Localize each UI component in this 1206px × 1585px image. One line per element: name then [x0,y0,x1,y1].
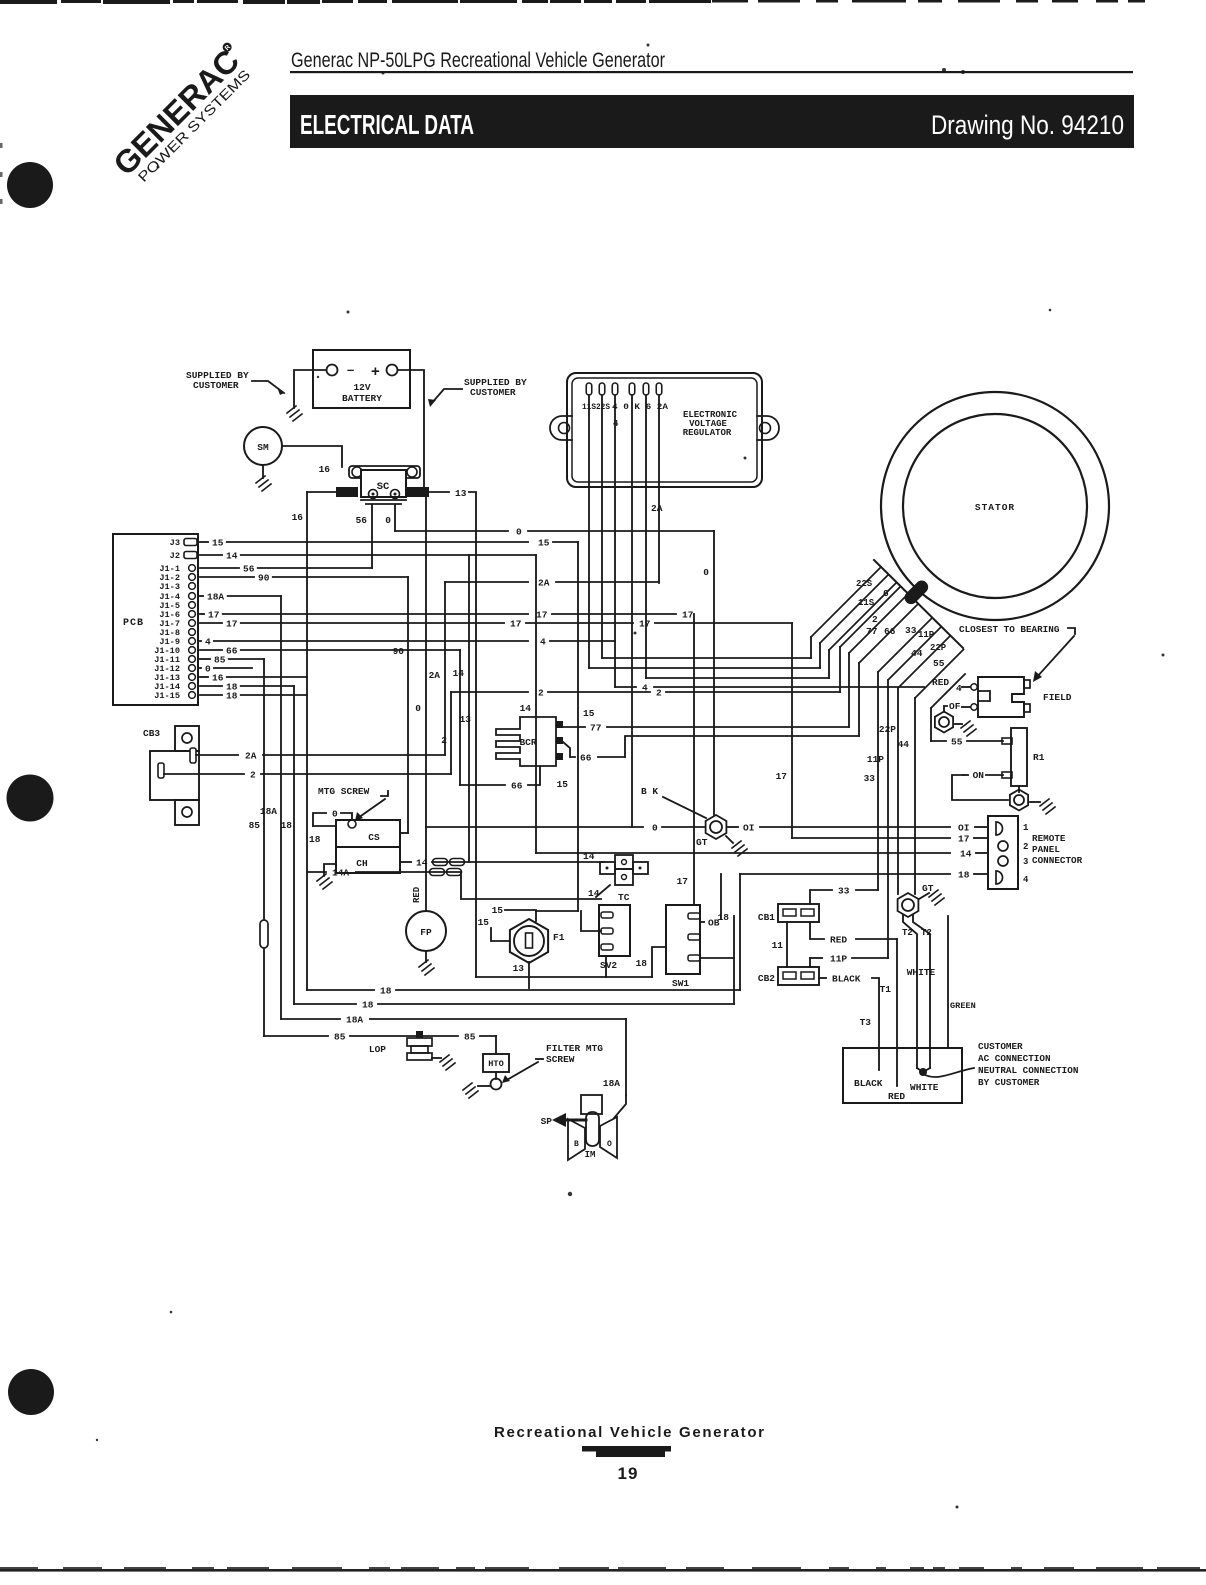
svg-text:FIELD: FIELD [1043,692,1072,703]
svg-text:SV2: SV2 [600,960,617,971]
svg-text:SC: SC [377,481,390,493]
svg-text:15: 15 [212,538,224,549]
svg-text:GT: GT [696,837,708,848]
svg-text:14: 14 [226,551,238,562]
svg-text:85: 85 [214,655,226,666]
svg-text:–: – [347,362,354,377]
svg-text:BLACK: BLACK [832,974,861,985]
svg-text:0: 0 [516,527,522,538]
svg-text:4: 4 [642,683,648,694]
svg-text:15: 15 [557,779,569,790]
svg-text:REMOTE: REMOTE [1032,833,1066,844]
svg-text:18: 18 [380,986,392,997]
svg-text:85: 85 [334,1032,346,1043]
svg-text:+: + [371,363,380,380]
svg-text:17: 17 [510,619,522,630]
svg-text:17: 17 [536,610,548,621]
svg-text:17: 17 [682,610,694,621]
svg-text:2: 2 [872,614,878,625]
svg-text:0: 0 [385,515,391,526]
svg-text:4: 4 [613,419,619,429]
svg-text:56: 56 [243,564,255,575]
svg-text:ELECTRICAL DATA: ELECTRICAL DATA [300,109,474,140]
svg-text:F1: F1 [553,932,565,943]
svg-text:77: 77 [590,723,602,734]
svg-text:18A: 18A [260,806,277,817]
svg-text:14: 14 [520,703,532,714]
svg-text:J1-3: J1-3 [159,582,180,592]
svg-text:33: 33 [864,773,876,784]
svg-text:12V: 12V [353,382,370,393]
svg-text:SP: SP [541,1116,553,1127]
svg-text:0: 0 [415,703,421,714]
svg-text:4: 4 [956,683,962,694]
svg-text:BCR: BCR [519,737,536,748]
svg-text:FILTER MTG: FILTER MTG [546,1043,603,1054]
svg-text:OI: OI [743,823,754,834]
svg-text:66: 66 [226,646,238,657]
svg-text:22P: 22P [930,643,947,653]
svg-text:TC: TC [618,892,630,903]
svg-text:CB2: CB2 [758,973,775,984]
svg-text:11P: 11P [918,630,935,640]
svg-text:B: B [574,1140,579,1149]
svg-text:O: O [607,1140,612,1149]
svg-text:2: 2 [250,770,256,781]
svg-text:18: 18 [281,820,293,831]
svg-text:13: 13 [455,488,467,499]
svg-text:2: 2 [441,735,447,746]
svg-text:56: 56 [356,515,368,526]
svg-text:11P: 11P [830,954,847,965]
svg-text:0: 0 [703,567,709,578]
svg-text:16: 16 [212,673,224,684]
svg-text:AC CONNECTION: AC CONNECTION [978,1053,1051,1064]
svg-text:17: 17 [208,610,220,621]
svg-text:18: 18 [309,834,321,845]
svg-text:33: 33 [905,625,917,636]
svg-text:3: 3 [1023,857,1028,867]
svg-text:18: 18 [636,958,648,969]
svg-text:CUSTOMER: CUSTOMER [978,1041,1023,1052]
svg-text:44: 44 [898,739,910,750]
svg-text:T3: T3 [860,1017,872,1028]
svg-text:CUSTOMER: CUSTOMER [470,387,516,398]
svg-text:14: 14 [453,668,465,679]
svg-text:18: 18 [362,1000,374,1011]
svg-text:66: 66 [580,753,592,764]
svg-text:15: 15 [538,538,550,549]
svg-text:CB3: CB3 [143,728,160,739]
svg-text:4: 4 [205,637,211,648]
svg-text:44: 44 [911,648,923,659]
svg-text:LOP: LOP [369,1044,386,1055]
svg-text:MTG SCREW: MTG SCREW [318,786,370,797]
svg-text:0: 0 [332,809,338,820]
svg-text:18: 18 [958,870,970,881]
svg-text:OF: OF [949,701,961,712]
svg-text:2A: 2A [538,578,550,589]
svg-text:17: 17 [639,619,651,630]
svg-text:REGULATOR: REGULATOR [683,428,732,438]
svg-text:2: 2 [656,688,662,699]
svg-text:PCB: PCB [123,618,144,629]
svg-text:HTO: HTO [488,1059,503,1069]
svg-text:66: 66 [511,781,523,792]
svg-text:RED: RED [932,677,949,688]
svg-text:1: 1 [1023,823,1029,833]
svg-text:0: 0 [205,664,211,675]
svg-text:15: 15 [478,917,490,928]
svg-text:18A: 18A [346,1015,363,1026]
svg-text:NEUTRAL CONNECTION: NEUTRAL CONNECTION [978,1065,1078,1076]
svg-text:4: 4 [1023,875,1029,885]
svg-text:GREEN: GREEN [950,1001,976,1011]
svg-text:55: 55 [951,737,963,748]
svg-text:14: 14 [416,858,428,869]
svg-text:11S: 11S [858,598,875,608]
svg-text:33: 33 [838,886,850,897]
svg-text:J2: J2 [170,551,180,561]
svg-text:14A: 14A [332,868,349,879]
svg-text:2: 2 [538,688,544,699]
svg-text:STATOR: STATOR [975,502,1015,513]
svg-text:T1: T1 [880,984,892,995]
svg-text:19: 19 [618,1464,639,1483]
svg-text:16: 16 [292,512,304,523]
svg-text:2A: 2A [651,503,663,514]
svg-text:PANEL: PANEL [1032,844,1060,855]
svg-text:GT: GT [922,883,934,894]
svg-text:SW1: SW1 [672,978,689,989]
svg-text:J3: J3 [170,538,180,548]
svg-text:SM: SM [257,442,269,453]
svg-text:90: 90 [393,646,405,657]
svg-text:85: 85 [464,1032,476,1043]
svg-text:IM: IM [585,1150,596,1160]
svg-text:13: 13 [513,963,525,974]
svg-text:R1: R1 [1033,752,1045,763]
svg-text:17: 17 [226,619,238,630]
svg-text:B K: B K [641,786,658,797]
svg-text:18: 18 [718,912,730,923]
svg-text:85: 85 [249,820,261,831]
svg-text:77: 77 [866,626,878,637]
svg-text:BY CUSTOMER: BY CUSTOMER [978,1077,1040,1088]
svg-text:66: 66 [884,626,896,637]
svg-text:WHITE: WHITE [910,1082,939,1093]
svg-text:14: 14 [583,851,595,862]
svg-text:RED: RED [888,1091,905,1102]
svg-text:CLOSEST TO BEARING: CLOSEST TO BEARING [959,624,1060,635]
svg-text:15: 15 [583,708,595,719]
svg-text:RED: RED [412,886,422,903]
svg-text:CS: CS [368,832,380,843]
svg-text:11: 11 [772,940,784,951]
svg-text:17: 17 [958,834,970,845]
svg-text:0: 0 [652,823,658,834]
svg-text:15: 15 [492,905,504,916]
svg-text:CH: CH [356,858,368,869]
svg-text:90: 90 [258,573,270,584]
svg-text:18A: 18A [603,1078,620,1089]
svg-text:CUSTOMER: CUSTOMER [193,380,239,391]
svg-text:22P: 22P [879,724,896,735]
svg-text:WHITE: WHITE [907,967,936,978]
svg-text:ON: ON [973,770,985,781]
svg-text:2: 2 [1023,842,1028,852]
svg-text:11S22S: 11S22S [582,403,610,412]
svg-text:55: 55 [933,658,945,669]
svg-text:22S: 22S [856,579,873,589]
svg-text:18: 18 [226,691,238,702]
svg-text:2A: 2A [429,670,441,681]
svg-text:2A: 2A [245,751,257,762]
svg-text:14: 14 [960,849,972,860]
svg-text:11P: 11P [867,754,884,765]
svg-text:17: 17 [776,771,788,782]
svg-text:SCREW: SCREW [546,1054,575,1065]
svg-text:Drawing No. 94210: Drawing No. 94210 [931,110,1124,140]
svg-text:Generac NP-50LPG Recreational: Generac NP-50LPG Recreational Vehicle Ge… [291,49,665,72]
svg-text:17: 17 [677,876,689,887]
svg-text:J1-15: J1-15 [154,691,180,701]
svg-text:OI: OI [958,823,969,834]
svg-text:CB1: CB1 [758,912,775,923]
svg-text:14: 14 [588,888,600,899]
svg-text:6: 6 [883,588,889,599]
svg-text:CONNECTOR: CONNECTOR [1032,855,1083,866]
svg-text:RED: RED [830,935,847,946]
svg-text:4: 4 [540,637,546,648]
svg-text:18A: 18A [207,592,224,603]
svg-text:FP: FP [420,927,432,938]
svg-text:16: 16 [319,464,331,475]
svg-text:BLACK: BLACK [854,1078,883,1089]
svg-text:BATTERY: BATTERY [342,393,382,404]
